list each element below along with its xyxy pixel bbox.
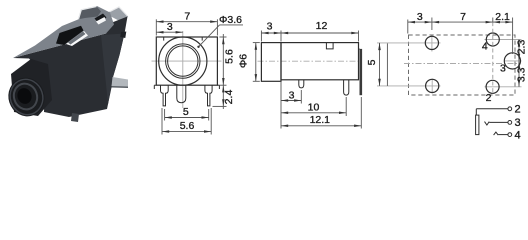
photo: barrel cylinder (3, 59, 52, 121)
svg-text:2.3: 2.3 (515, 40, 527, 55)
svg-text:Φ6: Φ6 (238, 54, 250, 68)
side view: dimension 10 (bottom) (281, 97, 346, 116)
photo: rear gray pin (top-right) (109, 7, 128, 22)
photo: top face large hole (56, 26, 88, 46)
top view: dimension 2.3 / 3.3 (right) (515, 40, 527, 87)
photo: top face small hole (95, 14, 107, 25)
top view: pad hole 2 (486, 80, 499, 93)
top view: mounting hole bottom-left (426, 79, 439, 92)
front view: jack opening circles (159, 37, 207, 85)
top view: centerline (404, 63, 519, 65)
svg-text:2: 2 (515, 104, 521, 116)
front view: middle pin (177, 85, 186, 103)
svg-text:2.4: 2.4 (223, 90, 235, 105)
photo: right side pin (112, 77, 129, 88)
side view: dimension dia 6 (left) (238, 43, 260, 82)
schematic: switch contact 3 (485, 117, 521, 129)
photo: jack connector body (dark plastic) (13, 17, 128, 118)
side view: pin 2 (344, 80, 349, 95)
svg-text:7: 7 (460, 11, 466, 23)
front view: right pin (205, 85, 212, 106)
svg-text:4: 4 (515, 129, 521, 141)
top view: dimension 7 (top) (432, 11, 493, 30)
top view: dimension 5 (left) (366, 43, 388, 86)
svg-text:10: 10 (308, 102, 320, 114)
top view: pad hole 3 (504, 53, 520, 69)
front view: body outline (154, 37, 219, 89)
svg-text:12: 12 (316, 20, 328, 32)
svg-text:3: 3 (417, 11, 423, 23)
side view: centerline (258, 60, 363, 62)
photo: bottom pin nub (71, 113, 79, 122)
side view: pin 1 (299, 80, 304, 88)
svg-text:12.1: 12.1 (310, 114, 331, 126)
side view: dimension 12.1 (bottom) (281, 97, 361, 129)
svg-text:3: 3 (167, 21, 173, 33)
front view: leader and label dia 3.6 (197, 14, 243, 48)
front view: dimension 7 (top) (156, 10, 217, 35)
side view: dimension 3 (top, barrel) (261, 21, 281, 42)
front view: left pin (161, 85, 169, 106)
top view: pad hole 4 (486, 33, 499, 46)
top view: vertical dashed line pads 4-2 (492, 22, 494, 94)
side view: body outline (261, 43, 358, 82)
top view: dimension 3 (top) (408, 11, 432, 34)
side view: mounting plate (right) (359, 49, 363, 95)
svg-text:5.6: 5.6 (180, 120, 195, 132)
top view: dashed body outline (409, 35, 516, 95)
svg-text:Φ3.6: Φ3.6 (219, 14, 242, 26)
svg-text:4: 4 (482, 40, 488, 52)
top view: hole crosshair lines (377, 36, 522, 94)
front view: dimension 5.6 (bottom) (162, 108, 211, 135)
front view: dimension 3 (top) (156, 21, 183, 33)
top view: mounting hole top-left (425, 36, 438, 49)
svg-text:2: 2 (486, 92, 492, 104)
svg-text:2.1: 2.1 (495, 11, 510, 23)
schematic: terminal 2 (508, 104, 521, 116)
svg-text:5.6: 5.6 (223, 49, 235, 64)
top view: dimension 2.1 (top) (493, 11, 513, 54)
schematic: switch contact 4 (494, 129, 521, 141)
side view: dimension 3 (bottom) (281, 82, 301, 129)
svg-text:3: 3 (500, 63, 506, 75)
photo: jack connector top face (13, 6, 114, 58)
side view: dimension 12 (top) (281, 20, 359, 42)
front view: centerlines (152, 31, 222, 108)
svg-text:3: 3 (267, 21, 273, 33)
svg-text:7: 7 (184, 10, 190, 22)
svg-text:3: 3 (515, 117, 521, 129)
side view: top notch (326, 43, 333, 49)
top view: pad labels (482, 40, 506, 104)
front view: dimension 5.6 / 2.4 (right) (213, 34, 236, 109)
svg-text:3: 3 (289, 89, 295, 101)
svg-text:3.3: 3.3 (515, 67, 527, 82)
photo: right edge notch (120, 32, 126, 39)
svg-text:5: 5 (183, 106, 189, 118)
front view: dimension 5 (bottom) (165, 106, 209, 121)
schematic: sleeve/frame contact (476, 109, 508, 135)
svg-text:5: 5 (366, 59, 378, 65)
